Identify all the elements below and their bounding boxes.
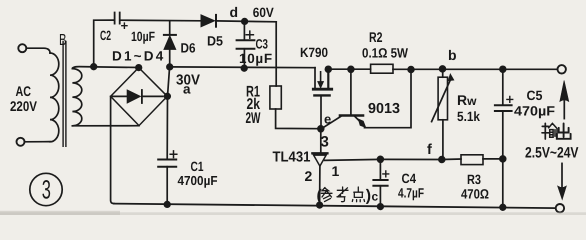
mosfet V1 K790 gate lead vertical <box>314 68 316 88</box>
svg-text:B: B <box>59 32 67 49</box>
svg-text:60V: 60V <box>253 5 274 20</box>
svg-text:470Ω: 470Ω <box>461 187 489 202</box>
mosfet drain lead <box>327 69 329 88</box>
svg-text:5.1k: 5.1k <box>457 109 480 124</box>
svg-text:2: 2 <box>305 168 313 184</box>
junction R3 right <box>500 156 506 162</box>
junction TL431 ground <box>317 202 323 208</box>
svg-text:4700µF: 4700µF <box>178 173 218 188</box>
wire (top rail mosfet to R2) <box>328 68 370 70</box>
svg-text:R3: R3 <box>467 172 481 187</box>
plus sign C1 <box>170 151 177 158</box>
output up arrow <box>563 101 565 119</box>
node f <box>439 157 445 163</box>
transformer B secondary winding <box>72 69 81 126</box>
junction C2 lead <box>91 64 97 70</box>
wire (R1 bottom to node e) <box>276 109 321 129</box>
junction mosfet top <box>325 66 331 72</box>
TL431 cathode bar <box>312 152 327 154</box>
capacitor C2 <box>115 13 120 24</box>
svg-text:0.1Ω 5W: 0.1Ω 5W <box>362 45 408 60</box>
capacitor C4 <box>378 156 384 162</box>
transistor V2 9013 collector lead <box>350 69 352 114</box>
svg-text:C4: C4 <box>402 171 417 186</box>
junction bridge top <box>136 65 142 71</box>
svg-text:3: 3 <box>321 134 329 151</box>
svg-text:a: a <box>183 82 191 97</box>
diode D5 <box>201 15 215 27</box>
svg-text:): ) <box>366 188 371 205</box>
svg-text:C2: C2 <box>100 28 111 43</box>
hanzi chu (output char 2) <box>557 124 571 139</box>
wire (bridge- down to ground rail) <box>111 96 114 203</box>
mosfet gate bar <box>314 94 329 96</box>
hanzi dian (ref char 3) <box>352 187 364 202</box>
wire (30V line to gate) <box>170 66 315 69</box>
wire (R1 feed from 60V rail) <box>275 22 277 86</box>
svg-text:470µF: 470µF <box>514 104 555 119</box>
svg-text:(: ( <box>317 188 323 205</box>
mosfet gate stem to node e <box>320 95 322 128</box>
plus sign C5 <box>507 97 513 103</box>
junction C1 ground <box>164 202 170 208</box>
mosfet body arrow <box>320 72 322 82</box>
scan edge smudge bottom <box>0 212 586 215</box>
svg-text:c: c <box>372 190 379 204</box>
wire (R2 to output terminal) <box>393 68 557 70</box>
junction C3 bottom <box>241 65 247 71</box>
wire (f line from TL431) <box>325 159 461 160</box>
svg-text:220V: 220V <box>10 98 38 114</box>
wire (R3 to right branch) <box>483 158 503 160</box>
wire (emitter loop) <box>365 70 412 128</box>
plus sign C4 <box>383 171 389 177</box>
resistor R2 <box>371 64 393 73</box>
bridge rectifier D1~D4 <box>111 68 168 126</box>
node d <box>242 19 248 25</box>
rheostat arrow <box>432 80 451 122</box>
svg-text:D1~D4: D1~D4 <box>112 49 165 64</box>
junction 30V node <box>167 64 173 70</box>
rheostat Rw <box>442 69 444 77</box>
ground rail <box>114 204 555 209</box>
svg-text:3: 3 <box>42 175 51 205</box>
svg-text:Rw: Rw <box>457 92 477 108</box>
junction emitter loop <box>408 67 414 73</box>
transistor 9013 emitter <box>355 117 361 123</box>
svg-text:f: f <box>427 142 432 158</box>
resistor R3 <box>461 155 483 165</box>
capacitor C5 <box>500 66 506 72</box>
svg-text:10µF: 10µF <box>239 51 273 66</box>
transformer core <box>63 42 66 147</box>
capacitor C1 <box>158 160 176 167</box>
AC input terminal bottom <box>17 138 25 146</box>
wire (30V node down through bridge+ to C1) <box>167 67 169 159</box>
transistor 9013 lead to node e <box>322 117 341 129</box>
svg-text:e: e <box>324 112 331 127</box>
TL431 triangle <box>314 155 327 166</box>
hanzi kao (ref char 2) <box>337 187 348 202</box>
svg-text:d: d <box>230 4 239 20</box>
hanzi can (ref char 1) <box>321 188 332 202</box>
junction 9013 collector tap <box>348 66 354 72</box>
svg-text:2.5V~24V: 2.5V~24V <box>525 145 579 162</box>
plus sign C3 <box>246 31 253 38</box>
transistor 9013 base bar <box>340 114 363 117</box>
TL431 anode lead <box>319 166 321 205</box>
svg-text:2W: 2W <box>246 110 261 127</box>
svg-text:K790: K790 <box>300 45 328 60</box>
svg-text:9013: 9013 <box>368 101 400 117</box>
svg-text:D6: D6 <box>181 41 196 56</box>
circled 3 figure number <box>30 173 62 205</box>
bridge inner diode <box>113 95 128 97</box>
hanzi shu (output char 1) <box>542 123 549 139</box>
wire (C2 to D5) <box>120 19 201 22</box>
output terminal plus <box>558 65 566 73</box>
svg-text:4.7µF: 4.7µF <box>398 186 424 201</box>
svg-text:C1: C1 <box>191 159 204 174</box>
mosfet channel bar <box>313 88 331 91</box>
wire (secondary top AC1) <box>72 67 138 69</box>
svg-text:1: 1 <box>332 163 340 179</box>
wire (D5 to rail corner) <box>216 20 276 23</box>
TL431 U1 lead from e <box>320 129 322 153</box>
capacitor C3 <box>243 21 245 40</box>
transformer B primary winding <box>50 53 59 142</box>
node b <box>440 66 446 72</box>
resistor R1 <box>270 86 281 109</box>
junction bridge right <box>165 94 171 100</box>
wire (secondary bottom AC2 to bridge) <box>72 125 139 127</box>
node e <box>318 126 324 132</box>
svg-text:b: b <box>448 47 457 63</box>
wire (bottom terminal to primary) <box>25 141 50 143</box>
svg-text:TL431: TL431 <box>273 149 311 165</box>
svg-text:C5: C5 <box>527 88 543 103</box>
svg-text:D5: D5 <box>207 34 223 49</box>
svg-text:R2: R2 <box>369 29 383 45</box>
svg-text:AC: AC <box>16 83 32 99</box>
AC input terminal top <box>18 44 26 52</box>
plus sign C2 <box>122 23 127 28</box>
svg-text:C3: C3 <box>256 37 269 52</box>
output terminal minus <box>556 204 564 212</box>
output down arrow <box>561 163 563 186</box>
wire (top terminal to primary) <box>27 48 51 53</box>
svg-text:10µF: 10µF <box>131 29 155 44</box>
wire (C2 left lead) <box>94 20 114 67</box>
diode D6 <box>169 21 171 35</box>
